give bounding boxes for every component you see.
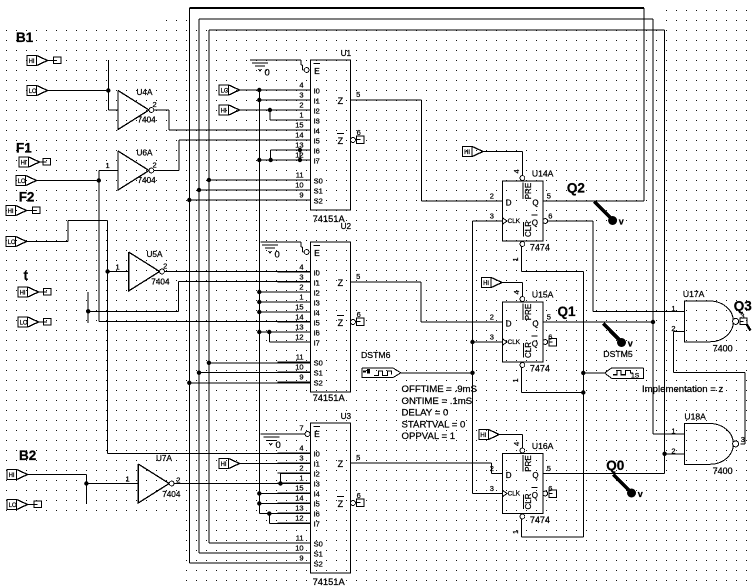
flip-flop U16A 7474 — [490, 441, 554, 534]
wire U2 I2 from LO net — [259, 291, 310, 293]
svg-text:1: 1 — [299, 474, 303, 483]
junction clear DSTM5 tap — [581, 371, 585, 375]
svg-text:I1: I1 — [314, 279, 320, 288]
svg-text:10: 10 — [295, 544, 303, 553]
flip-flop U14A 7474 — [490, 169, 554, 262]
svg-text:9: 9 — [299, 554, 303, 563]
no-connect (U16A Qbar) — [549, 490, 557, 498]
svg-text:F2: F2 — [19, 190, 35, 205]
wire HI to U15A PRE — [502, 283, 522, 297]
wire U2 S1 from rail Q1 — [199, 372, 311, 374]
svg-text:4: 4 — [512, 290, 521, 294]
junction F1 LO — [97, 178, 101, 182]
no-connect (F1 HI) — [40, 159, 51, 166]
svg-text:Z: Z — [338, 318, 344, 328]
svg-text:1: 1 — [116, 263, 120, 272]
inverter U7A 7404 — [138, 454, 181, 503]
junction U2 I6 and riser tap — [257, 330, 271, 334]
svg-text:9: 9 — [299, 373, 303, 382]
svg-text:CLR: CLR — [524, 221, 533, 237]
svg-text:I7: I7 — [314, 157, 320, 166]
junction U2 I3 — [257, 300, 261, 304]
connector HI (U14A PRE) — [463, 147, 484, 157]
wire U2 S0 from rail Q0 — [209, 362, 311, 364]
junction U3 I4 — [257, 491, 261, 495]
no-connect (t LO) — [39, 319, 52, 326]
svg-text:2: 2 — [490, 192, 494, 201]
connector HI (B2) — [7, 470, 28, 480]
svg-text:HI: HI — [221, 109, 227, 115]
svg-text:1: 1 — [126, 475, 130, 484]
wire U3 Z to U16A D — [351, 463, 503, 473]
junction Q1 rail tap — [651, 320, 655, 324]
svg-text:5: 5 — [356, 90, 360, 99]
probe Q2 — [594, 202, 624, 227]
svg-text:I3: I3 — [314, 117, 320, 126]
svg-text:B2: B2 — [19, 448, 36, 463]
ground 0 (U1) — [250, 60, 304, 78]
svg-text:I2: I2 — [314, 470, 320, 479]
wire LO F1 to U6A input and U2 I5 — [37, 171, 311, 322]
svg-text:1: 1 — [511, 257, 520, 261]
wire LO F2 to U5A input and U3 I0 — [27, 221, 311, 454]
svg-text:CLK: CLK — [508, 218, 521, 225]
wire U14A Q to rail Q2 — [543, 200, 644, 202]
svg-text:CLK: CLK — [508, 491, 521, 498]
svg-text:Q0: Q0 — [606, 458, 624, 473]
svg-text:4: 4 — [299, 81, 303, 90]
svg-text:U4A: U4A — [137, 88, 153, 97]
svg-text:S0: S0 — [314, 177, 323, 186]
svg-text:OFFTIME = .9mS: OFFTIME = .9mS — [402, 384, 477, 395]
junction U1 I1 — [257, 98, 261, 102]
svg-text:I5: I5 — [314, 137, 320, 146]
svg-text:HI: HI — [221, 462, 227, 468]
svg-text:U1: U1 — [341, 49, 352, 58]
probe Q0 — [613, 475, 643, 500]
svg-text:U18A: U18A — [684, 412, 706, 422]
svg-text:LO: LO — [9, 503, 17, 509]
svg-text:D: D — [506, 319, 512, 328]
wire U2 I3 from LO net — [259, 301, 310, 303]
svg-text:CLR: CLR — [524, 493, 533, 509]
inverter U4A 7404 — [118, 88, 157, 130]
svg-text:S0: S0 — [314, 359, 323, 368]
svg-text:11: 11 — [296, 171, 304, 180]
junction rail Q1 at U1 S1 — [197, 188, 201, 192]
svg-text:3: 3 — [299, 91, 303, 100]
svg-text:2: 2 — [490, 313, 494, 322]
svg-text:9: 9 — [299, 191, 303, 200]
svg-text:STARTVAL = 0: STARTVAL = 0 — [402, 419, 466, 430]
svg-text:1: 1 — [511, 378, 520, 382]
svg-text:2: 2 — [153, 100, 157, 109]
svg-text:LO: LO — [20, 321, 28, 327]
wire U1 I6-I7 risers — [259, 150, 310, 160]
svg-text:HI: HI — [29, 59, 35, 65]
wire HI to U1 I2 I3 — [240, 110, 311, 120]
svg-text:HI: HI — [480, 433, 486, 439]
svg-text:HI: HI — [464, 150, 470, 156]
svg-text:LO: LO — [18, 179, 26, 185]
wire rail Q0 inner rectangle — [209, 30, 665, 543]
svg-text:I0: I0 — [314, 450, 320, 459]
svg-text:Q1: Q1 — [558, 304, 577, 319]
connector HI (F1) — [19, 157, 40, 167]
svg-text:2: 2 — [163, 261, 167, 270]
svg-text:1: 1 — [511, 530, 520, 534]
wire U1 S1 from rail Q1 — [199, 189, 311, 191]
svg-text:4: 4 — [512, 169, 521, 173]
wire U14A Qbar to U17A input 1 — [548, 221, 685, 311]
wire LO to U1 I0 I1 — [240, 90, 311, 514]
svg-text:7474: 7474 — [530, 515, 550, 525]
wire HI to U14A PRE — [483, 152, 522, 176]
svg-text:B1: B1 — [16, 30, 34, 45]
junction B1 LO — [106, 88, 110, 92]
svg-text:3: 3 — [490, 484, 494, 493]
svg-text:U5A: U5A — [147, 250, 163, 259]
connector LO (F1) — [16, 176, 37, 186]
svg-text:I2: I2 — [314, 289, 320, 298]
svg-text:1: 1 — [299, 111, 303, 120]
svg-text:Q: Q — [532, 320, 538, 329]
junction clear U15A tap — [581, 390, 585, 394]
svg-text:PRE: PRE — [524, 455, 533, 471]
svg-text:I6: I6 — [314, 147, 320, 156]
svg-text:ONTIME = .1mS: ONTIME = .1mS — [402, 396, 473, 407]
svg-text:U6A: U6A — [137, 149, 153, 158]
no-connect (t HI) — [39, 289, 52, 296]
junction U1 I0 — [257, 88, 261, 92]
svg-text:I2: I2 — [314, 107, 320, 116]
svg-text:74151A: 74151A — [313, 393, 346, 403]
pin label 3 (U18A out) — [741, 435, 745, 444]
svg-text:3: 3 — [490, 333, 494, 342]
svg-text:4: 4 — [299, 263, 303, 272]
connector HI (U16A PRE) — [479, 430, 500, 440]
wire U4A output to U1 I4 — [154, 110, 311, 130]
wire HI B2 to U7A input — [28, 475, 139, 505]
junction U3 I5 and I6 riser tap — [257, 501, 271, 516]
svg-text:10: 10 — [295, 181, 303, 190]
svg-text:I4: I4 — [314, 309, 320, 318]
svg-text:5: 5 — [356, 272, 360, 281]
connector LO (F2) — [6, 237, 27, 247]
no-connect (B1 HI) — [48, 57, 62, 64]
svg-text:74151A: 74151A — [313, 577, 346, 587]
svg-text:DSTM5: DSTM5 — [603, 349, 633, 359]
junction clock DSTM6 tap — [470, 371, 474, 375]
svg-text:Z: Z — [338, 136, 344, 146]
svg-text:0: 0 — [275, 250, 280, 261]
wire U18A input 2 stub — [665, 453, 685, 455]
net label B2 — [19, 448, 36, 463]
svg-text:I4: I4 — [314, 490, 320, 499]
wire U15A Q to rail Q1 — [543, 321, 653, 323]
svg-text:I0: I0 — [314, 87, 320, 96]
no-connect (F2 HI) — [27, 207, 41, 214]
junction rail Q0 at U18A input 2 — [662, 452, 666, 456]
junction rail Q2 at U2 S2 — [187, 381, 191, 385]
svg-text:Implementation = z: Implementation = z — [642, 384, 724, 395]
ground 0 (U2) — [261, 242, 305, 260]
nand gate U18A 7400 — [671, 412, 738, 476]
svg-text:CLR: CLR — [524, 342, 533, 358]
svg-text:2: 2 — [153, 160, 157, 169]
parameter text block DSTM6 — [402, 384, 477, 442]
inverter U5A 7404 — [129, 250, 170, 291]
net label Q1 — [558, 304, 577, 319]
wire U7A output to U3 I3 — [174, 483, 311, 485]
svg-text:13: 13 — [295, 323, 303, 332]
junction U2 I2 — [257, 290, 261, 294]
svg-text:Z: Z — [338, 96, 344, 106]
connector LO (U1 I0) — [219, 85, 240, 95]
wire U2 I4 from LO net — [259, 311, 310, 313]
svg-text:Q3: Q3 — [734, 299, 753, 314]
svg-text:PRE: PRE — [524, 304, 533, 320]
svg-text:U7A: U7A — [156, 454, 172, 463]
text implementation — [642, 384, 724, 395]
wire U2 I6 I7 from LO net — [259, 332, 310, 342]
svg-text:HI: HI — [483, 281, 489, 287]
svg-text:I0: I0 — [314, 269, 320, 278]
svg-text:5: 5 — [547, 192, 551, 201]
svg-text:0: 0 — [265, 68, 270, 79]
svg-text:6: 6 — [548, 212, 552, 221]
pin label 1 (U6A in) — [106, 161, 110, 170]
svg-text:I1: I1 — [314, 97, 320, 106]
svg-text:2: 2 — [299, 464, 303, 473]
svg-text:I4: I4 — [314, 127, 320, 136]
connector HI (U15A PRE) — [482, 278, 503, 288]
svg-text:1: 1 — [299, 293, 303, 302]
svg-text:Q2: Q2 — [567, 180, 585, 195]
svg-text:12: 12 — [295, 514, 303, 523]
wire U3 I5 I6 I7 from LO net — [259, 504, 310, 524]
multiplexer U1 74151A — [278, 49, 365, 224]
svg-text:U2: U2 — [341, 222, 352, 231]
wire stub with tee near t — [88, 282, 310, 324]
svg-text:I7: I7 — [314, 339, 320, 348]
svg-text:I1: I1 — [314, 460, 320, 469]
svg-text:F1: F1 — [16, 141, 32, 156]
svg-text:7474: 7474 — [530, 243, 550, 253]
inverter U6A 7404 — [118, 149, 157, 191]
junction clock U15A CLK — [470, 340, 474, 344]
wire U3 I2 riser — [281, 474, 311, 484]
svg-text:7404: 7404 — [151, 278, 170, 287]
svg-text:S1: S1 — [314, 369, 323, 378]
junction U1 I2 — [268, 108, 272, 112]
svg-text:LO: LO — [29, 89, 37, 95]
svg-text:5: 5 — [356, 453, 360, 462]
svg-text:13: 13 — [295, 504, 303, 513]
nand gate U17A 7400 — [671, 289, 738, 353]
svg-text:14: 14 — [295, 494, 303, 503]
svg-text:E: E — [314, 66, 320, 76]
multiplexer U2 74151A — [278, 222, 365, 403]
svg-text:Z: Z — [338, 278, 344, 288]
probe Q1 — [603, 324, 633, 349]
wire HI to U16A PRE — [499, 435, 522, 449]
svg-text:5: 5 — [547, 313, 551, 322]
multiplexer U3 74151A — [278, 412, 365, 587]
connector HI (B1) — [27, 56, 48, 66]
svg-text:14: 14 — [295, 131, 303, 140]
svg-text:4: 4 — [299, 444, 303, 453]
svg-text:HI: HI — [21, 161, 27, 167]
svg-text:U17A: U17A — [683, 289, 705, 299]
svg-text:7: 7 — [299, 424, 303, 433]
svg-text:OPPVAL = 1: OPPVAL = 1 — [402, 431, 456, 442]
svg-text:10: 10 — [295, 363, 303, 372]
wire U6A output to U1 I5 — [154, 140, 311, 171]
net label t — [24, 268, 29, 283]
svg-text:14: 14 — [295, 313, 303, 322]
svg-text:15: 15 — [295, 121, 303, 130]
pin label 3 and no-connect (U17A out) — [740, 312, 750, 331]
svg-text:7400: 7400 — [713, 344, 733, 354]
svg-text:I3: I3 — [314, 480, 320, 489]
connector HI (t) — [18, 287, 39, 297]
svg-text:7404: 7404 — [162, 490, 181, 499]
net label Q3 — [734, 299, 753, 314]
svg-text:HI: HI — [9, 473, 15, 479]
no-connect (U15A Qbar) — [549, 338, 557, 346]
svg-text:1: 1 — [671, 427, 675, 436]
wire clock net DSTM6 — [401, 221, 503, 494]
net label B1 — [16, 30, 34, 45]
svg-text:3: 3 — [299, 454, 303, 463]
wire U2 Z to U15A D — [351, 282, 503, 322]
net label F2 — [19, 190, 35, 205]
pin label 1 (U7A in) — [126, 475, 130, 484]
svg-text:11: 11 — [296, 353, 304, 362]
connector HI (U3 I1) — [219, 459, 240, 469]
pin label 1 (U5A in) — [116, 263, 120, 272]
svg-text:DELAY = 0: DELAY = 0 — [402, 408, 449, 419]
svg-text:I6: I6 — [314, 329, 320, 338]
wire U2 S2 from rail Q2 — [189, 382, 310, 384]
svg-text:15: 15 — [295, 484, 303, 493]
svg-text:S1: S1 — [314, 550, 323, 559]
svg-text:U14A: U14A — [532, 169, 554, 179]
svg-text:HI: HI — [20, 291, 26, 297]
ground 0 (U3) — [261, 434, 306, 451]
svg-text:S2: S2 — [314, 560, 323, 569]
wire clear net — [522, 247, 605, 537]
svg-text:2: 2 — [299, 283, 303, 292]
wire U17A input2 from U18A output — [674, 331, 745, 444]
net label Q0 — [606, 458, 624, 473]
svg-text:U15A: U15A — [532, 290, 554, 300]
enable bubble (U3 E) — [305, 432, 310, 437]
wire U1 S2 from rail Q2 — [189, 199, 310, 201]
svg-text:S0: S0 — [314, 540, 323, 549]
svg-text:7400: 7400 — [713, 466, 733, 476]
svg-text:LO: LO — [8, 240, 16, 246]
wire rail Q1 middle rectangle — [199, 19, 685, 553]
svg-text:v: v — [628, 339, 633, 349]
svg-text:Z: Z — [338, 499, 344, 509]
svg-text:CLK: CLK — [508, 339, 521, 346]
svg-text:7404: 7404 — [138, 116, 157, 125]
svg-text:2: 2 — [299, 101, 303, 110]
svg-text:U16A: U16A — [532, 441, 554, 451]
junction U3 I3 — [278, 481, 282, 485]
svg-text:1: 1 — [671, 304, 675, 313]
junction U5A input — [105, 269, 109, 273]
junction t stub — [86, 309, 90, 313]
svg-text:12: 12 — [295, 333, 303, 342]
net label Q2 — [567, 180, 585, 195]
svg-text:1S: 1S — [631, 373, 640, 380]
junction rail Q1 at U2 S1 — [197, 371, 201, 375]
wire U3 I4 from LO net — [259, 493, 310, 495]
svg-text:HI: HI — [8, 209, 14, 215]
connector HI (F2) — [6, 206, 27, 216]
wire U16A Q to rail Q0 — [543, 473, 665, 475]
connector LO (t) — [18, 317, 39, 327]
wire HI to U3 I1 — [240, 463, 311, 465]
svg-text:7404: 7404 — [138, 176, 157, 185]
svg-text:t: t — [24, 268, 29, 283]
svg-text:v: v — [619, 217, 624, 227]
svg-text:5: 5 — [547, 464, 551, 473]
enable bubble (U2 E) — [304, 250, 309, 255]
svg-text:Z: Z — [338, 459, 344, 469]
svg-text:I7: I7 — [314, 520, 320, 529]
stimulus DSTM6 — [361, 350, 401, 378]
svg-text:I5: I5 — [314, 319, 320, 328]
wire U1 Z to U14A D — [351, 100, 503, 201]
enable bubble (U1 E) — [304, 68, 309, 73]
svg-text:E: E — [314, 429, 320, 439]
svg-text:3: 3 — [741, 435, 745, 444]
flip-flop U15A 7474 — [490, 290, 554, 383]
net label F1 — [16, 141, 32, 156]
svg-text:4: 4 — [512, 442, 521, 446]
svg-text:0: 0 — [276, 440, 281, 451]
svg-text:2: 2 — [671, 447, 675, 456]
svg-text:D: D — [506, 471, 512, 480]
svg-text:DSTM6: DSTM6 — [361, 350, 391, 360]
svg-text:3: 3 — [299, 273, 303, 282]
svg-text:U3: U3 — [341, 412, 352, 421]
svg-text:I5: I5 — [314, 500, 320, 509]
stimulus DSTM5 — [603, 349, 643, 380]
junction U1 I7 taps — [257, 148, 302, 162]
svg-text:2: 2 — [490, 464, 494, 473]
svg-text:I3: I3 — [314, 299, 320, 308]
svg-text:3: 3 — [490, 212, 494, 221]
wire rail Q2 outer rectangle — [189, 8, 644, 563]
svg-text:S1: S1 — [314, 187, 323, 196]
junction B2 HI — [84, 481, 88, 485]
svg-text:E: E — [314, 248, 320, 258]
svg-text:11: 11 — [296, 534, 304, 543]
svg-text:v: v — [638, 489, 643, 499]
svg-text:D: D — [506, 198, 512, 207]
wire LO B1 to U4A input — [48, 60, 119, 110]
junction rail Q0 at U2 S0 — [207, 361, 211, 365]
svg-text:7474: 7474 — [530, 364, 550, 374]
no-connect (B2 LO) — [28, 501, 42, 508]
svg-text:Q: Q — [532, 199, 538, 208]
svg-text:PRE: PRE — [524, 183, 533, 199]
